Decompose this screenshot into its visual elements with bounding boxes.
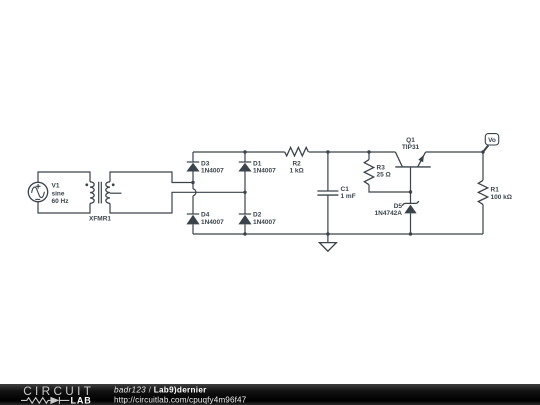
svg-text:D4: D4 <box>201 212 210 219</box>
svg-text:XFMR1: XFMR1 <box>89 215 111 222</box>
svg-text:R3: R3 <box>377 165 386 172</box>
label D2 <box>253 212 276 226</box>
wire V1 to primary top <box>38 172 90 182</box>
node ground <box>326 232 329 235</box>
node R3 top <box>367 150 370 153</box>
svg-text:V1: V1 <box>52 183 60 190</box>
diode D2 <box>238 214 251 234</box>
transistor Q1 <box>395 152 430 192</box>
svg-text:sine: sine <box>52 190 65 197</box>
svg-text:R2: R2 <box>292 160 301 167</box>
svg-text:25 Ω: 25 Ω <box>377 172 391 179</box>
transformer secondary polarity dot <box>112 183 115 186</box>
svg-text:http://circuitlab.com/cpuqfy4m: http://circuitlab.com/cpuqfy4m96f47 <box>114 395 247 404</box>
svg-text:1 kΩ: 1 kΩ <box>289 168 303 175</box>
label C1 <box>341 186 356 200</box>
label D5 <box>375 203 403 217</box>
label Q1 <box>402 137 420 151</box>
wire top rail mid <box>309 151 396 153</box>
node D5 bottom <box>409 232 412 235</box>
svg-text:D3: D3 <box>201 160 210 167</box>
wire top rail left <box>193 151 285 153</box>
resistor R2 <box>285 147 309 156</box>
svg-text:100 kΩ: 100 kΩ <box>491 194 512 201</box>
svg-text:D2: D2 <box>253 212 262 219</box>
transformer primary polarity dot <box>85 183 88 186</box>
node C1 top <box>326 150 329 153</box>
zener diode D5 <box>402 192 419 234</box>
transformer core <box>99 182 102 204</box>
node left bridge mid <box>191 181 194 184</box>
svg-text:Vo: Vo <box>488 137 496 144</box>
label R2 <box>289 160 303 174</box>
wire hop on left branch <box>193 189 196 196</box>
transformer secondary tap stub <box>110 192 122 194</box>
svg-text:1N4007: 1N4007 <box>253 219 276 226</box>
svg-text:1N4742A: 1N4742A <box>375 210 403 217</box>
diode D1 <box>238 152 251 214</box>
svg-text:D1: D1 <box>253 160 262 167</box>
label D1 <box>253 160 276 174</box>
svg-text:1N4007: 1N4007 <box>201 219 224 226</box>
transformer XFMR1 primary coil <box>90 182 94 204</box>
node base-zener <box>409 190 412 193</box>
svg-text:badr123 / Lab9)dernier: badr123 / Lab9)dernier <box>114 385 207 394</box>
svg-text:60 Hz: 60 Hz <box>52 198 70 205</box>
wire secondary bottom to bridge <box>110 192 245 213</box>
footer bar <box>0 384 540 405</box>
ground symbol <box>319 234 336 251</box>
svg-text:C1: C1 <box>341 186 350 193</box>
resistor R3 <box>364 152 410 192</box>
label R1 <box>491 187 512 201</box>
diode D3 <box>186 152 199 189</box>
svg-text:1N4007: 1N4007 <box>253 168 276 175</box>
wire V1 to primary bottom <box>38 202 90 213</box>
node D1 top <box>243 150 246 153</box>
label D3 <box>201 160 224 174</box>
logo wire resistor diode <box>21 397 69 404</box>
node D2 bottom <box>243 232 246 235</box>
voltage source V1 <box>28 182 47 201</box>
svg-text:LAB: LAB <box>71 395 92 405</box>
svg-text:Q1: Q1 <box>406 137 415 144</box>
wire bottom rail <box>193 233 483 235</box>
svg-text:1N4007: 1N4007 <box>201 168 224 175</box>
label D4 <box>201 212 224 226</box>
resistor R1 <box>478 152 487 234</box>
svg-text:R1: R1 <box>491 187 500 194</box>
flag Vo <box>483 134 499 152</box>
svg-text:TIP31: TIP31 <box>402 144 420 151</box>
wire secondary top to bridge <box>110 172 193 183</box>
diode D4 <box>186 196 199 234</box>
transformer XFMR1 secondary coil <box>106 182 110 204</box>
label R3 <box>377 165 391 179</box>
capacitor C1 <box>317 152 338 234</box>
node Vo <box>481 150 484 153</box>
svg-text:1 mF: 1 mF <box>341 193 356 200</box>
svg-text:D5: D5 <box>394 203 403 210</box>
label V1 value <box>52 183 70 205</box>
node right bridge mid <box>243 191 246 194</box>
wire top rail right <box>426 151 483 153</box>
